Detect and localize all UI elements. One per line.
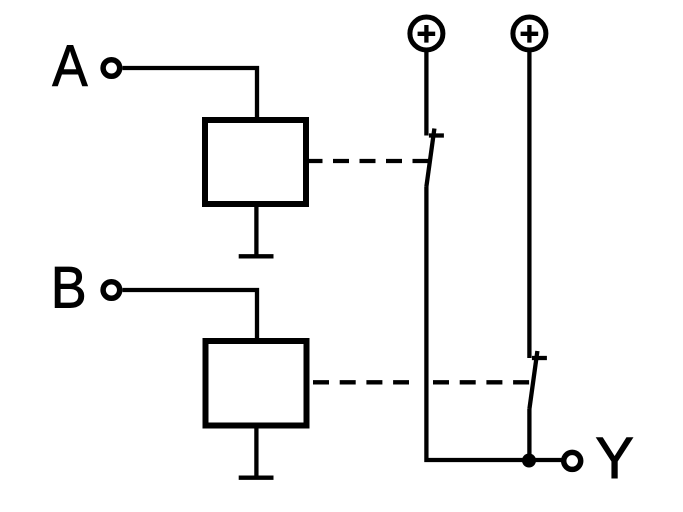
svg-text:Y: Y [595,426,634,491]
svg-text:A: A [52,34,88,99]
svg-text:B: B [51,256,87,321]
